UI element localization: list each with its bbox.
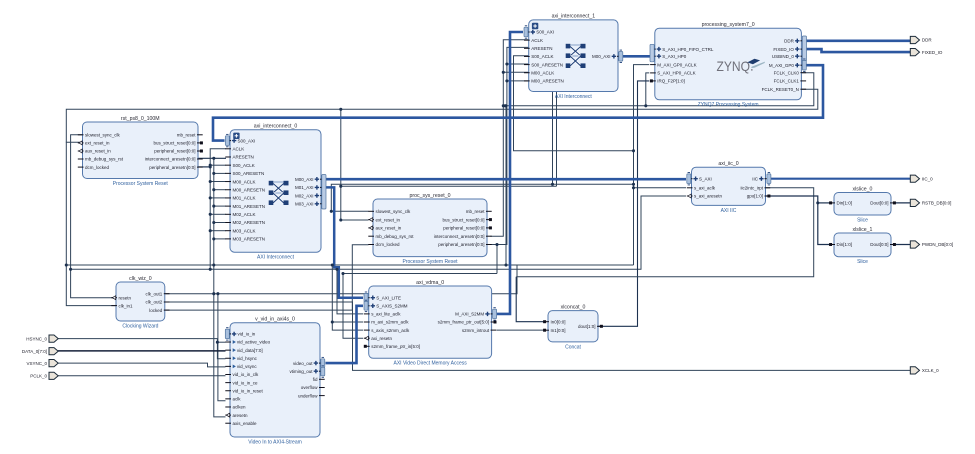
ZYNQ logo bbox=[717, 58, 766, 74]
svg-text:interconnect_aresetn[0:0]: interconnect_aresetn[0:0] bbox=[434, 234, 485, 239]
svg-text:vid_hsync: vid_hsync bbox=[237, 356, 258, 361]
svg-text:s_axi_aresetn: s_axi_aresetn bbox=[694, 194, 723, 199]
wire DATA_0 bus to vid_data bbox=[58, 350, 226, 352]
pin vid_io_in_ce bbox=[225, 380, 258, 385]
pin video_out bbox=[293, 361, 325, 366]
svg-text:m_axi_s2mm_aclk: m_axi_s2mm_aclk bbox=[371, 320, 409, 325]
wire interconnect_1 ARESETN feed bbox=[491, 47, 529, 244]
svg-text:aresetn: aresetn bbox=[233, 413, 249, 418]
pin S_AXI_HP0_ACLK bbox=[650, 71, 695, 76]
wire secondary clock horizontal bbox=[341, 185, 557, 187]
svg-text:M00_ARESETN: M00_ARESETN bbox=[531, 79, 564, 84]
pin USBIND_0 bbox=[772, 54, 806, 59]
pin FCLK_CLK1 bbox=[774, 79, 806, 84]
svg-text:s_axi_aclk: s_axi_aclk bbox=[694, 186, 716, 191]
svg-text:Video In to AXI4-Stream: Video In to AXI4-Stream bbox=[248, 439, 302, 445]
interface connector vdma S_AXIS_S2MM bbox=[364, 300, 368, 311]
IP block v_vid_in_axi4s_0 bbox=[230, 317, 320, 446]
svg-text:M01_ACLK: M01_ACLK bbox=[233, 196, 256, 201]
interface connector v_vid vtiming_out bbox=[321, 366, 325, 377]
pin M_AXI_GP0_ACLK bbox=[650, 62, 696, 67]
wire proc slowest_sync_clk feed bbox=[331, 184, 633, 211]
IP block clk_wiz_0 bbox=[116, 276, 165, 330]
svg-text:RSTB_DB[0:0]: RSTB_DB[0:0] bbox=[922, 201, 952, 206]
svg-text:S00_ARESETN: S00_ARESETN bbox=[233, 171, 265, 176]
wire chain vertical A bbox=[210, 149, 226, 269]
pin M03_ARESETN bbox=[225, 237, 265, 242]
wire chain stub A bbox=[210, 230, 226, 232]
pin dout[1:0] bbox=[578, 324, 603, 329]
external port PWDN_DB[0:0] bbox=[910, 241, 953, 248]
wire HSYNC_0 to vid_hsync bbox=[58, 339, 226, 359]
interface connector interconnect_0 S00_AXI bbox=[225, 134, 229, 146]
IP block rst_ps8_0_100M bbox=[83, 116, 199, 187]
svg-text:vid_active_video: vid_active_video bbox=[237, 340, 271, 345]
svg-text:Concat: Concat bbox=[565, 344, 581, 350]
pin axi_resetn bbox=[364, 336, 392, 341]
wire xlslice_0 Dout to RSTB bbox=[894, 202, 911, 204]
svg-text:ACLK: ACLK bbox=[233, 146, 245, 151]
svg-text:s2mm_frame_ptr_out[5:0]: s2mm_frame_ptr_out[5:0] bbox=[438, 320, 490, 325]
svg-text:Dout[0:0]: Dout[0:0] bbox=[870, 242, 888, 247]
IP block processing_system7_0 bbox=[655, 22, 802, 108]
svg-text:HSYNC_0: HSYNC_0 bbox=[26, 336, 47, 341]
pin peripheral_aresetn[0:0] bbox=[149, 165, 202, 170]
svg-text:xlslice_0: xlslice_0 bbox=[853, 186, 873, 192]
wire PS7 M_AXI_GP0 to interconnect_0 S00_AXI bbox=[213, 65, 823, 140]
pin S00_ARESETN bbox=[524, 62, 563, 67]
svg-text:S00_AXI: S00_AXI bbox=[536, 30, 554, 35]
IP block xlslice_1 bbox=[834, 227, 891, 265]
pin clk_out1 bbox=[146, 291, 170, 296]
interface connector interconnect_1 M00_AXI bbox=[619, 50, 623, 62]
svg-text:axi_interconnect_0: axi_interconnect_0 bbox=[254, 124, 298, 130]
wire M00_AXI to S_AXI_HP0 bbox=[618, 55, 650, 58]
svg-text:VSYNC_0: VSYNC_0 bbox=[26, 361, 47, 366]
pin locked bbox=[149, 308, 169, 313]
svg-text:axi_vdma_0: axi_vdma_0 bbox=[416, 280, 444, 286]
svg-text:vid_io_in_clk: vid_io_in_clk bbox=[233, 372, 260, 377]
svg-text:vid_data[7:0]: vid_data[7:0] bbox=[237, 348, 263, 353]
pin M00_ACLK bbox=[524, 70, 554, 75]
svg-text:DDR: DDR bbox=[922, 38, 932, 43]
wire IRQ_F2P from concat bbox=[599, 81, 650, 326]
svg-text:M02_ARESETN: M02_ARESETN bbox=[233, 220, 266, 225]
svg-text:peripheral_reset[0:0]: peripheral_reset[0:0] bbox=[154, 149, 195, 154]
svg-text:vid_io_in_reset: vid_io_in_reset bbox=[233, 388, 264, 393]
pin FCLK_RESET0_N bbox=[762, 87, 806, 92]
pin S_AXI_HP0 bbox=[650, 54, 687, 59]
svg-text:clk_out2: clk_out2 bbox=[146, 300, 163, 305]
wire rst interconnect_aresetn out bbox=[198, 157, 226, 159]
pin aresetn bbox=[225, 413, 248, 418]
pin vid_io_in_reset bbox=[225, 388, 263, 393]
wire interconnect_1 ACLK feed bbox=[491, 40, 529, 237]
svg-text:M01_AXI: M01_AXI bbox=[295, 185, 314, 190]
pin Din[1:0] bbox=[829, 242, 852, 247]
pin S_AXI bbox=[687, 176, 712, 181]
pin ARESETN bbox=[524, 46, 552, 51]
wire chain stub B bbox=[214, 172, 226, 174]
pin M00_ACLK bbox=[225, 179, 255, 184]
svg-text:S_AXI_HP0_ACLK: S_AXI_HP0_ACLK bbox=[657, 71, 695, 76]
external port DATA_0[7:0] bbox=[22, 348, 58, 355]
svg-text:aux_reset_in: aux_reset_in bbox=[85, 149, 111, 154]
external port VSYNC_0 bbox=[26, 360, 58, 367]
svg-text:AXI Interconnect: AXI Interconnect bbox=[555, 94, 593, 100]
svg-text:FIXED_IO: FIXED_IO bbox=[773, 47, 794, 52]
pin Din[1:0] bbox=[829, 201, 852, 206]
svg-text:FIXED_IO: FIXED_IO bbox=[922, 50, 943, 55]
wire chain stub B bbox=[214, 189, 226, 191]
wire interconnect_0 M01_AXI to vdma S_AXI_LITE bbox=[325, 187, 363, 297]
svg-text:USBIND_0: USBIND_0 bbox=[772, 54, 795, 59]
pin In0[0:0] bbox=[543, 319, 565, 324]
pin aclk bbox=[225, 397, 241, 402]
svg-text:ACLK: ACLK bbox=[531, 38, 543, 43]
svg-text:Processor System Reset: Processor System Reset bbox=[113, 181, 169, 187]
pin M_AXI_S2MM bbox=[455, 312, 496, 317]
pin mb_debug_sys_rst bbox=[368, 234, 414, 239]
wire chain stub A bbox=[210, 164, 226, 166]
wire vdma M_AXI_S2MM to interconnect_1 S00_AXI bbox=[497, 32, 523, 314]
svg-text:M00_ACLK: M00_ACLK bbox=[233, 179, 256, 184]
wire chain stub A bbox=[210, 213, 226, 215]
wire FIXED_IO wire bbox=[806, 49, 910, 52]
pin DDR bbox=[784, 39, 806, 44]
wire gpo branch to xlslice_0 bbox=[818, 202, 832, 204]
pin M_AXI_GP0 bbox=[769, 63, 806, 68]
svg-text:IIC_0: IIC_0 bbox=[922, 176, 933, 181]
interface connector vdma S_AXI_LITE bbox=[364, 292, 368, 303]
svg-text:In1[0:0]: In1[0:0] bbox=[551, 328, 566, 333]
wire chain stub A bbox=[210, 197, 226, 199]
pin s_axi_aclk bbox=[687, 186, 716, 191]
svg-text:DATA_0[7:0]: DATA_0[7:0] bbox=[22, 349, 47, 354]
interface connector PS7 M_AXI_GP0 bbox=[802, 59, 806, 71]
pin s2mm_frame_ptr_out[5:0] bbox=[438, 320, 497, 325]
svg-text:ARESETN: ARESETN bbox=[233, 155, 254, 160]
svg-text:S_AXI_HP0: S_AXI_HP0 bbox=[662, 54, 687, 59]
external port RSTB_DB[0:0] bbox=[910, 199, 951, 206]
svg-text:v_vid_in_axi4s_0: v_vid_in_axi4s_0 bbox=[255, 317, 295, 323]
pin M00_ARESETN bbox=[225, 187, 265, 192]
svg-text:interconnect_aresetn[0:0]: interconnect_aresetn[0:0] bbox=[145, 157, 196, 162]
pin ARESETN bbox=[225, 155, 253, 160]
svg-text:resetn: resetn bbox=[119, 295, 132, 300]
wire axi_iic IIC to IIC_0 bbox=[771, 178, 910, 180]
svg-text:underflow: underflow bbox=[298, 393, 318, 398]
pin M01_ARESETN bbox=[225, 204, 265, 209]
external port DDR bbox=[910, 36, 932, 43]
interface connector interconnect_1 S00_AXI bbox=[524, 26, 528, 38]
pin s2mm_frame_ptr_in[5:0] bbox=[364, 344, 420, 349]
pin slowest_sync_clk bbox=[368, 209, 411, 214]
pin s_axis_s2mm_aclk bbox=[364, 328, 410, 333]
pin mb_reset bbox=[466, 209, 492, 214]
expand toggle bbox=[233, 133, 239, 139]
svg-text:vid_vsync: vid_vsync bbox=[237, 364, 258, 369]
pin interconnect_aresetn[0:0] bbox=[434, 234, 492, 239]
svg-text:M00_AXI: M00_AXI bbox=[295, 177, 314, 182]
svg-text:mb_debug_sys_rst: mb_debug_sys_rst bbox=[376, 234, 415, 239]
pin vid_io_in bbox=[225, 332, 255, 337]
svg-text:FCLK_CLK0: FCLK_CLK0 bbox=[774, 70, 800, 75]
svg-text:S_AXI_LITE: S_AXI_LITE bbox=[376, 295, 401, 300]
pin interconnect_aresetn[0:0] bbox=[145, 157, 203, 162]
external port HSYNC_0 bbox=[26, 335, 58, 342]
svg-text:fid: fid bbox=[313, 377, 318, 382]
wire s2mm_introut to concat In1 bbox=[497, 329, 546, 331]
svg-text:s_axis_s2mm_aclk: s_axis_s2mm_aclk bbox=[371, 328, 410, 333]
wire FCLK_CLK0 from PS7 down-left bbox=[506, 73, 814, 265]
svg-text:M00_ARESETN: M00_ARESETN bbox=[233, 187, 266, 192]
pin FIXED_IO bbox=[773, 47, 806, 52]
pin S00_ACLK bbox=[524, 54, 553, 59]
svg-text:M03_ACLK: M03_ACLK bbox=[233, 228, 256, 233]
wire chain stub B bbox=[214, 238, 226, 240]
interface connector vdma M_AXI_S2MM bbox=[493, 308, 497, 320]
pin dcm_locked bbox=[78, 165, 110, 170]
pin s_axi_lite_aclk bbox=[364, 312, 401, 317]
junction aclk chain junctions bbox=[209, 164, 212, 233]
svg-text:vtiming_out: vtiming_out bbox=[289, 369, 313, 374]
svg-text:S_AXIS_S2MM: S_AXIS_S2MM bbox=[376, 304, 408, 309]
wire S_AXI_HP0_ACLK feed bbox=[646, 73, 650, 106]
wire FCLK_RESET0_N from PS7 bbox=[66, 89, 818, 142]
pin bus_struct_reset[0:0] bbox=[442, 217, 491, 222]
wire chain vertical B bbox=[214, 158, 226, 417]
pin vtiming_out bbox=[289, 369, 324, 374]
pin Dout[0:0] bbox=[870, 242, 896, 247]
svg-text:XCLK_0: XCLK_0 bbox=[922, 368, 939, 373]
pin mb_debug_sys_rst bbox=[78, 157, 124, 162]
pin ACLK bbox=[225, 146, 244, 151]
junction misc junctions bbox=[216, 104, 820, 344]
pin S00_AXI bbox=[225, 138, 255, 143]
svg-text:FCLK_CLK1: FCLK_CLK1 bbox=[774, 79, 800, 84]
svg-text:slowest_sync_clk: slowest_sync_clk bbox=[376, 209, 412, 214]
pin peripheral_reset[0:0] bbox=[443, 226, 492, 231]
pin Dout[0:0] bbox=[870, 201, 896, 206]
pin peripheral_aresetn[0:0] bbox=[438, 242, 491, 247]
wire M_AXI_GP0_ACLK net bbox=[634, 65, 650, 265]
pin M03_ACLK bbox=[225, 228, 255, 233]
IP block axi_interconnect_0 bbox=[230, 124, 321, 261]
pin s_axi_aresetn bbox=[687, 194, 723, 199]
junction reset net junctions bbox=[69, 62, 508, 275]
svg-text:AXI Video Direct Memory Access: AXI Video Direct Memory Access bbox=[394, 361, 468, 367]
pin M01_AXI bbox=[295, 185, 326, 190]
svg-text:DDR: DDR bbox=[784, 39, 794, 44]
pin S00_ACLK bbox=[225, 163, 254, 168]
svg-text:vid_io_in_ce: vid_io_in_ce bbox=[233, 380, 259, 385]
external port FIXED_IO bbox=[910, 49, 943, 56]
svg-text:axi_iic_0: axi_iic_0 bbox=[718, 161, 738, 167]
pin fid bbox=[313, 377, 325, 382]
junction clock net junctions bbox=[65, 71, 648, 324]
wire PCLK_0 to vid_io_in_clk bbox=[58, 375, 226, 377]
svg-text:ext_reset_in: ext_reset_in bbox=[85, 141, 110, 146]
pin M00_AXI bbox=[592, 54, 623, 59]
svg-text:slowest_sync_clk: slowest_sync_clk bbox=[85, 133, 121, 138]
pin aux_reset_in bbox=[78, 149, 111, 154]
wire gpo to slices bbox=[766, 196, 832, 245]
pin underflow bbox=[298, 393, 325, 398]
IP block proc_sys_reset_0 bbox=[373, 193, 487, 265]
pin M01_ACLK bbox=[225, 196, 255, 201]
pin axis_enable bbox=[225, 421, 257, 426]
svg-text:AXI IIC: AXI IIC bbox=[721, 208, 737, 214]
svg-text:S_AXI_HP0_FIFO_CTRL: S_AXI_HP0_FIFO_CTRL bbox=[662, 47, 714, 52]
svg-text:clk_wiz_0: clk_wiz_0 bbox=[129, 276, 152, 282]
IP block xlslice_0 bbox=[834, 186, 891, 223]
pin IIC bbox=[752, 176, 770, 181]
pin S00_ARESETN bbox=[225, 171, 264, 176]
pin resetn bbox=[111, 295, 131, 300]
pin vid_vsync bbox=[225, 364, 257, 369]
svg-text:S00_AXI: S00_AXI bbox=[238, 138, 256, 143]
crossbar switch icon bbox=[566, 44, 586, 68]
svg-text:S_AXI: S_AXI bbox=[699, 176, 712, 181]
svg-text:Slice: Slice bbox=[857, 217, 868, 223]
pin aux_reset_in bbox=[368, 226, 401, 231]
pin clk_in1 bbox=[111, 303, 133, 308]
svg-text:clk_in1: clk_in1 bbox=[119, 303, 134, 308]
pin iic2intc_irpt bbox=[740, 186, 770, 191]
svg-text:ARESETN: ARESETN bbox=[531, 46, 552, 51]
svg-text:mb_debug_sys_rst: mb_debug_sys_rst bbox=[85, 157, 124, 162]
svg-text:S00_ACLK: S00_ACLK bbox=[233, 163, 255, 168]
wire clk_out2 to XCLK_0 bbox=[165, 302, 910, 370]
svg-text:rst_ps8_0_100M: rst_ps8_0_100M bbox=[121, 116, 160, 122]
svg-text:M00_ACLK: M00_ACLK bbox=[531, 70, 554, 75]
expand toggle bbox=[532, 23, 538, 29]
svg-text:Clocking Wizard: Clocking Wizard bbox=[122, 323, 158, 329]
svg-text:bus_struct_reset[0:0]: bus_struct_reset[0:0] bbox=[153, 141, 195, 146]
pin ACLK bbox=[524, 38, 543, 43]
svg-text:M02_AXI: M02_AXI bbox=[295, 193, 314, 198]
pin ext_reset_in bbox=[78, 141, 110, 146]
pin vid_hsync bbox=[225, 356, 257, 361]
svg-text:mb_reset: mb_reset bbox=[177, 133, 197, 138]
pin slowest_sync_clk bbox=[78, 133, 121, 138]
svg-text:dout[1:0]: dout[1:0] bbox=[578, 324, 596, 329]
pin FCLK_CLK0 bbox=[774, 70, 806, 75]
pin overflow bbox=[301, 385, 325, 390]
wire concat In0 feed bbox=[516, 277, 546, 322]
pin S_AXI_LITE bbox=[364, 295, 401, 300]
svg-text:M_AXI_S2MM: M_AXI_S2MM bbox=[455, 312, 484, 317]
pin dcm_locked bbox=[368, 242, 400, 247]
svg-text:S00_ARESETN: S00_ARESETN bbox=[531, 62, 563, 67]
wire xlslice_1 Dout to PWDN bbox=[894, 244, 911, 246]
pin M02_ARESETN bbox=[225, 220, 265, 225]
wire iic2intc_irpt to concat bbox=[516, 188, 814, 277]
wire video_out to S_AXIS_S2MM bbox=[326, 306, 364, 363]
wire VSYNC_0 to vid_vsync bbox=[58, 363, 226, 367]
wire chain stub B bbox=[214, 222, 226, 224]
IP block xlconcat_0 bbox=[548, 304, 598, 350]
svg-text:iic2intc_irpt: iic2intc_irpt bbox=[740, 186, 763, 191]
svg-text:Din[1:0]: Din[1:0] bbox=[837, 242, 853, 247]
wire proc_sys_reset ext_reset_in feed bbox=[341, 109, 369, 220]
wire interconnect_1 S00_ARESETN feed bbox=[507, 63, 529, 65]
pin peripheral_reset[0:0] bbox=[154, 149, 203, 154]
svg-text:dcm_locked: dcm_locked bbox=[85, 165, 110, 170]
pin vid_data[7:0] bbox=[225, 348, 262, 353]
wire interconnect_1 M00_ARESETN stub bbox=[507, 80, 529, 82]
crossbar switch icon bbox=[269, 181, 289, 205]
pin M03_AXI bbox=[295, 201, 326, 206]
wire GP0 clock branch to interconnect_1 bbox=[514, 56, 634, 151]
external port IIC_0 bbox=[910, 175, 933, 182]
svg-text:gpo[1:0]: gpo[1:0] bbox=[747, 194, 763, 199]
pin m_axi_s2mm_aclk bbox=[364, 320, 409, 325]
svg-text:Dout[0:0]: Dout[0:0] bbox=[870, 201, 888, 206]
svg-text:M03_ARESETN: M03_ARESETN bbox=[233, 237, 266, 242]
svg-text:ext_reset_in: ext_reset_in bbox=[376, 217, 401, 222]
pin M02_ACLK bbox=[225, 212, 255, 217]
pin IRQ_F2P[1:0] bbox=[650, 79, 685, 84]
wire vdma m_axi_s2mm_aclk stub bbox=[332, 321, 363, 323]
svg-text:IRQ_F2P[1:0]: IRQ_F2P[1:0] bbox=[657, 79, 685, 84]
wire iic s_axi_aclk branch bbox=[634, 187, 687, 189]
wire chain stub B bbox=[214, 205, 226, 207]
wire interconnect_1 M00_ACLK stub bbox=[503, 71, 528, 73]
svg-text:locked: locked bbox=[149, 308, 163, 313]
svg-text:axi_interconnect_1: axi_interconnect_1 bbox=[552, 14, 596, 20]
wire clk_out1 net bbox=[165, 265, 517, 294]
pin vid_io_in_clk bbox=[225, 372, 259, 377]
pin M00_AXI bbox=[295, 177, 326, 182]
interface connector axi_iic IIC bbox=[767, 173, 771, 185]
pin S_AXIS_S2MM bbox=[364, 304, 408, 309]
interface connector column interconnect_0 M_AXI bbox=[322, 175, 326, 210]
svg-text:overflow: overflow bbox=[301, 385, 319, 390]
pin bus_struct_reset[0:0] bbox=[153, 141, 202, 146]
svg-text:FCLK_RESET0_N: FCLK_RESET0_N bbox=[762, 87, 799, 92]
interface connector v_vid vid_io_in bbox=[225, 328, 229, 340]
wire DDR wire bbox=[806, 39, 910, 42]
pin ext_reset_in bbox=[368, 217, 400, 222]
wire vdma axi_resetn feed bbox=[343, 274, 363, 339]
svg-text:peripheral_reset[0:0]: peripheral_reset[0:0] bbox=[443, 226, 484, 231]
svg-text:S00_ACLK: S00_ACLK bbox=[531, 54, 553, 59]
external port XCLK_0 bbox=[910, 367, 939, 374]
IP block axi_interconnect_1 bbox=[529, 14, 618, 100]
svg-text:aclken: aclken bbox=[233, 405, 247, 410]
wire branch to vid_active_video bbox=[217, 341, 225, 343]
wire chain stub A bbox=[210, 181, 226, 183]
junction aresetn chain junctions bbox=[209, 157, 216, 241]
pin vid_active_video bbox=[225, 340, 270, 345]
svg-text:Slice: Slice bbox=[857, 259, 868, 265]
wire vdma s_axi_lite_aclk feed bbox=[337, 269, 363, 314]
wire clock distribution horizontal bbox=[66, 264, 633, 266]
svg-text:s2mm_introut: s2mm_introut bbox=[462, 328, 490, 333]
wire slowest_sync_clk feed bbox=[71, 135, 117, 298]
wire v_vid aclk feed bbox=[218, 294, 226, 401]
svg-text:peripheral_aresetn[0:0]: peripheral_aresetn[0:0] bbox=[149, 165, 195, 170]
wire peripheral aresetn link bbox=[343, 273, 497, 275]
svg-text:M_AXI_GP0_ACLK: M_AXI_GP0_ACLK bbox=[657, 62, 696, 67]
wire proc peripheral_aresetn out bbox=[491, 245, 498, 274]
wire pass-under vertical B bbox=[556, 92, 558, 186]
svg-text:bus_struct_reset[0:0]: bus_struct_reset[0:0] bbox=[442, 217, 484, 222]
wire vdma s_axis_s2mm_aclk feed bbox=[332, 265, 363, 330]
interface connector v_vid video_out bbox=[321, 357, 325, 368]
